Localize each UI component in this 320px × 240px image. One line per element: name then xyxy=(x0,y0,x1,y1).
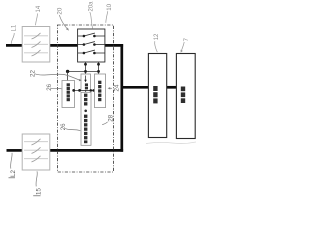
arrow inside sensor box xyxy=(84,76,87,83)
leader 26 lower xyxy=(65,128,80,130)
leader 10 xyxy=(106,11,108,23)
svg-text:7: 7 xyxy=(183,38,190,42)
voltage sensor box 22 xyxy=(62,81,75,108)
leader 12 xyxy=(155,41,158,52)
node junction B xyxy=(84,70,87,73)
svg-text:L1: L1 xyxy=(12,24,18,31)
node G xyxy=(92,89,95,92)
current detector box 24 xyxy=(95,74,106,108)
relay box 20a xyxy=(78,29,105,62)
svg-text:14: 14 xyxy=(36,5,42,12)
wire sensor feed horizontal xyxy=(68,70,99,72)
wire vertical bus xyxy=(120,44,123,152)
svg-text:20: 20 xyxy=(56,7,63,14)
control unit box 28 xyxy=(81,92,91,145)
node relay output left terminal xyxy=(84,63,87,66)
node junction A xyxy=(66,70,69,73)
leader 28 xyxy=(102,122,107,125)
node F xyxy=(90,89,93,92)
wire upper bus middle segment xyxy=(50,44,78,47)
faint scan squiggle under boxes xyxy=(146,142,196,144)
svg-text:L2: L2 xyxy=(10,170,17,177)
wire relay output left drop xyxy=(85,62,87,74)
leader 14 xyxy=(36,13,38,25)
leader 22 with arrow xyxy=(35,74,82,82)
current sensor small box xyxy=(81,74,91,91)
breaker box 14 xyxy=(22,27,50,63)
relay contact row 2 xyxy=(78,42,105,46)
relay contact row 3 xyxy=(78,50,105,54)
svg-text:12: 12 xyxy=(154,33,160,40)
wire lower bus right segment xyxy=(50,149,123,152)
leader 7 xyxy=(181,42,185,53)
wire branch to charger 12 xyxy=(123,86,149,89)
charger box 12 xyxy=(148,54,166,138)
text in control unit xyxy=(84,94,87,144)
svg-text:26: 26 xyxy=(46,83,53,90)
svg-text:28: 28 xyxy=(107,114,114,121)
wire L1 upper bus left segment xyxy=(6,44,22,47)
svg-text:24: 24 xyxy=(113,84,120,91)
wire stub to control unit xyxy=(85,90,87,92)
svg-text:26: 26 xyxy=(60,123,67,130)
wire relay output right drop xyxy=(98,62,100,74)
wire drop to voltage sensor 22 xyxy=(67,71,69,80)
leader L1 xyxy=(11,33,14,44)
text in box 24 xyxy=(98,81,101,102)
text in box 22 xyxy=(67,83,70,101)
breaker box 15 xyxy=(22,134,50,170)
leader 15 xyxy=(36,171,37,186)
relay contact row 1 xyxy=(78,33,105,37)
wire sensor interconnect xyxy=(75,89,95,91)
text in box 7 xyxy=(181,87,185,104)
underline 15 xyxy=(33,195,40,197)
wire upper bus right segment xyxy=(105,44,123,47)
node junction C xyxy=(97,70,100,73)
leader L2 xyxy=(11,153,12,169)
battery box 7 xyxy=(176,54,195,139)
svg-text:22: 22 xyxy=(30,70,37,77)
svg-text:15: 15 xyxy=(35,188,42,195)
battery pack dashed box 20 xyxy=(58,25,114,172)
text in box 12 xyxy=(153,86,157,103)
leader 24 arrow xyxy=(108,87,112,89)
leader 20a xyxy=(90,12,93,28)
node relay output right terminal xyxy=(97,63,100,66)
underline L2 xyxy=(9,177,16,179)
svg-text:20a: 20a xyxy=(88,1,94,12)
node D xyxy=(72,89,75,92)
svg-text:10: 10 xyxy=(106,3,113,10)
leader 20 with arrow xyxy=(59,15,69,31)
wire between charger 12 and battery 7 xyxy=(167,86,177,89)
node E xyxy=(78,89,81,92)
text in sensor box xyxy=(85,83,88,89)
leader 26 xyxy=(51,87,62,90)
wire L2 lower bus left segment xyxy=(7,149,23,152)
